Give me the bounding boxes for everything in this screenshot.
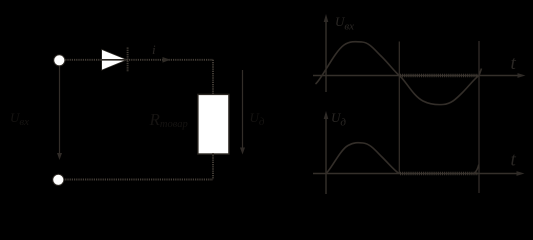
- svg-text:i: i: [152, 42, 156, 57]
- svg-text:Uд: Uд: [331, 110, 346, 129]
- output voltage arrow: [242, 70, 244, 148]
- wire bottom horizontal: [63, 179, 213, 181]
- graph2 next hump start: [474, 165, 479, 174]
- terminal top-left: [54, 55, 65, 66]
- ref line 2: [478, 41, 480, 193]
- input voltage arrow: [59, 66, 61, 154]
- wire right vertical: [212, 60, 214, 95]
- terminal bottom-left: [53, 174, 64, 185]
- svg-text:t: t: [511, 53, 517, 74]
- graph2 x-axis: [313, 173, 520, 175]
- svg-text:Rтовар: Rтовар: [149, 110, 188, 130]
- graph1 zero dotted segment: [400, 74, 478, 77]
- svg-text:Uвх: Uвх: [10, 110, 29, 128]
- graph2 zero dotted segment: [400, 172, 478, 175]
- graph2 hump: [326, 143, 399, 174]
- svg-text:Uд: Uд: [250, 110, 265, 128]
- graph1 sine curve: [316, 42, 482, 105]
- svg-text:t: t: [511, 150, 517, 171]
- wire top horizontal: [63, 59, 213, 61]
- graph2 y-axis: [325, 115, 327, 194]
- resistor R: [198, 94, 229, 154]
- diode D1: [102, 48, 128, 73]
- current arrow: [163, 57, 171, 63]
- graph1 x-axis: [313, 75, 521, 77]
- graph1 y-axis: [325, 18, 327, 92]
- svg-text:Uвх: Uвх: [335, 14, 354, 33]
- ref line 1: [398, 42, 400, 175]
- wire below resistor: [212, 153, 214, 180]
